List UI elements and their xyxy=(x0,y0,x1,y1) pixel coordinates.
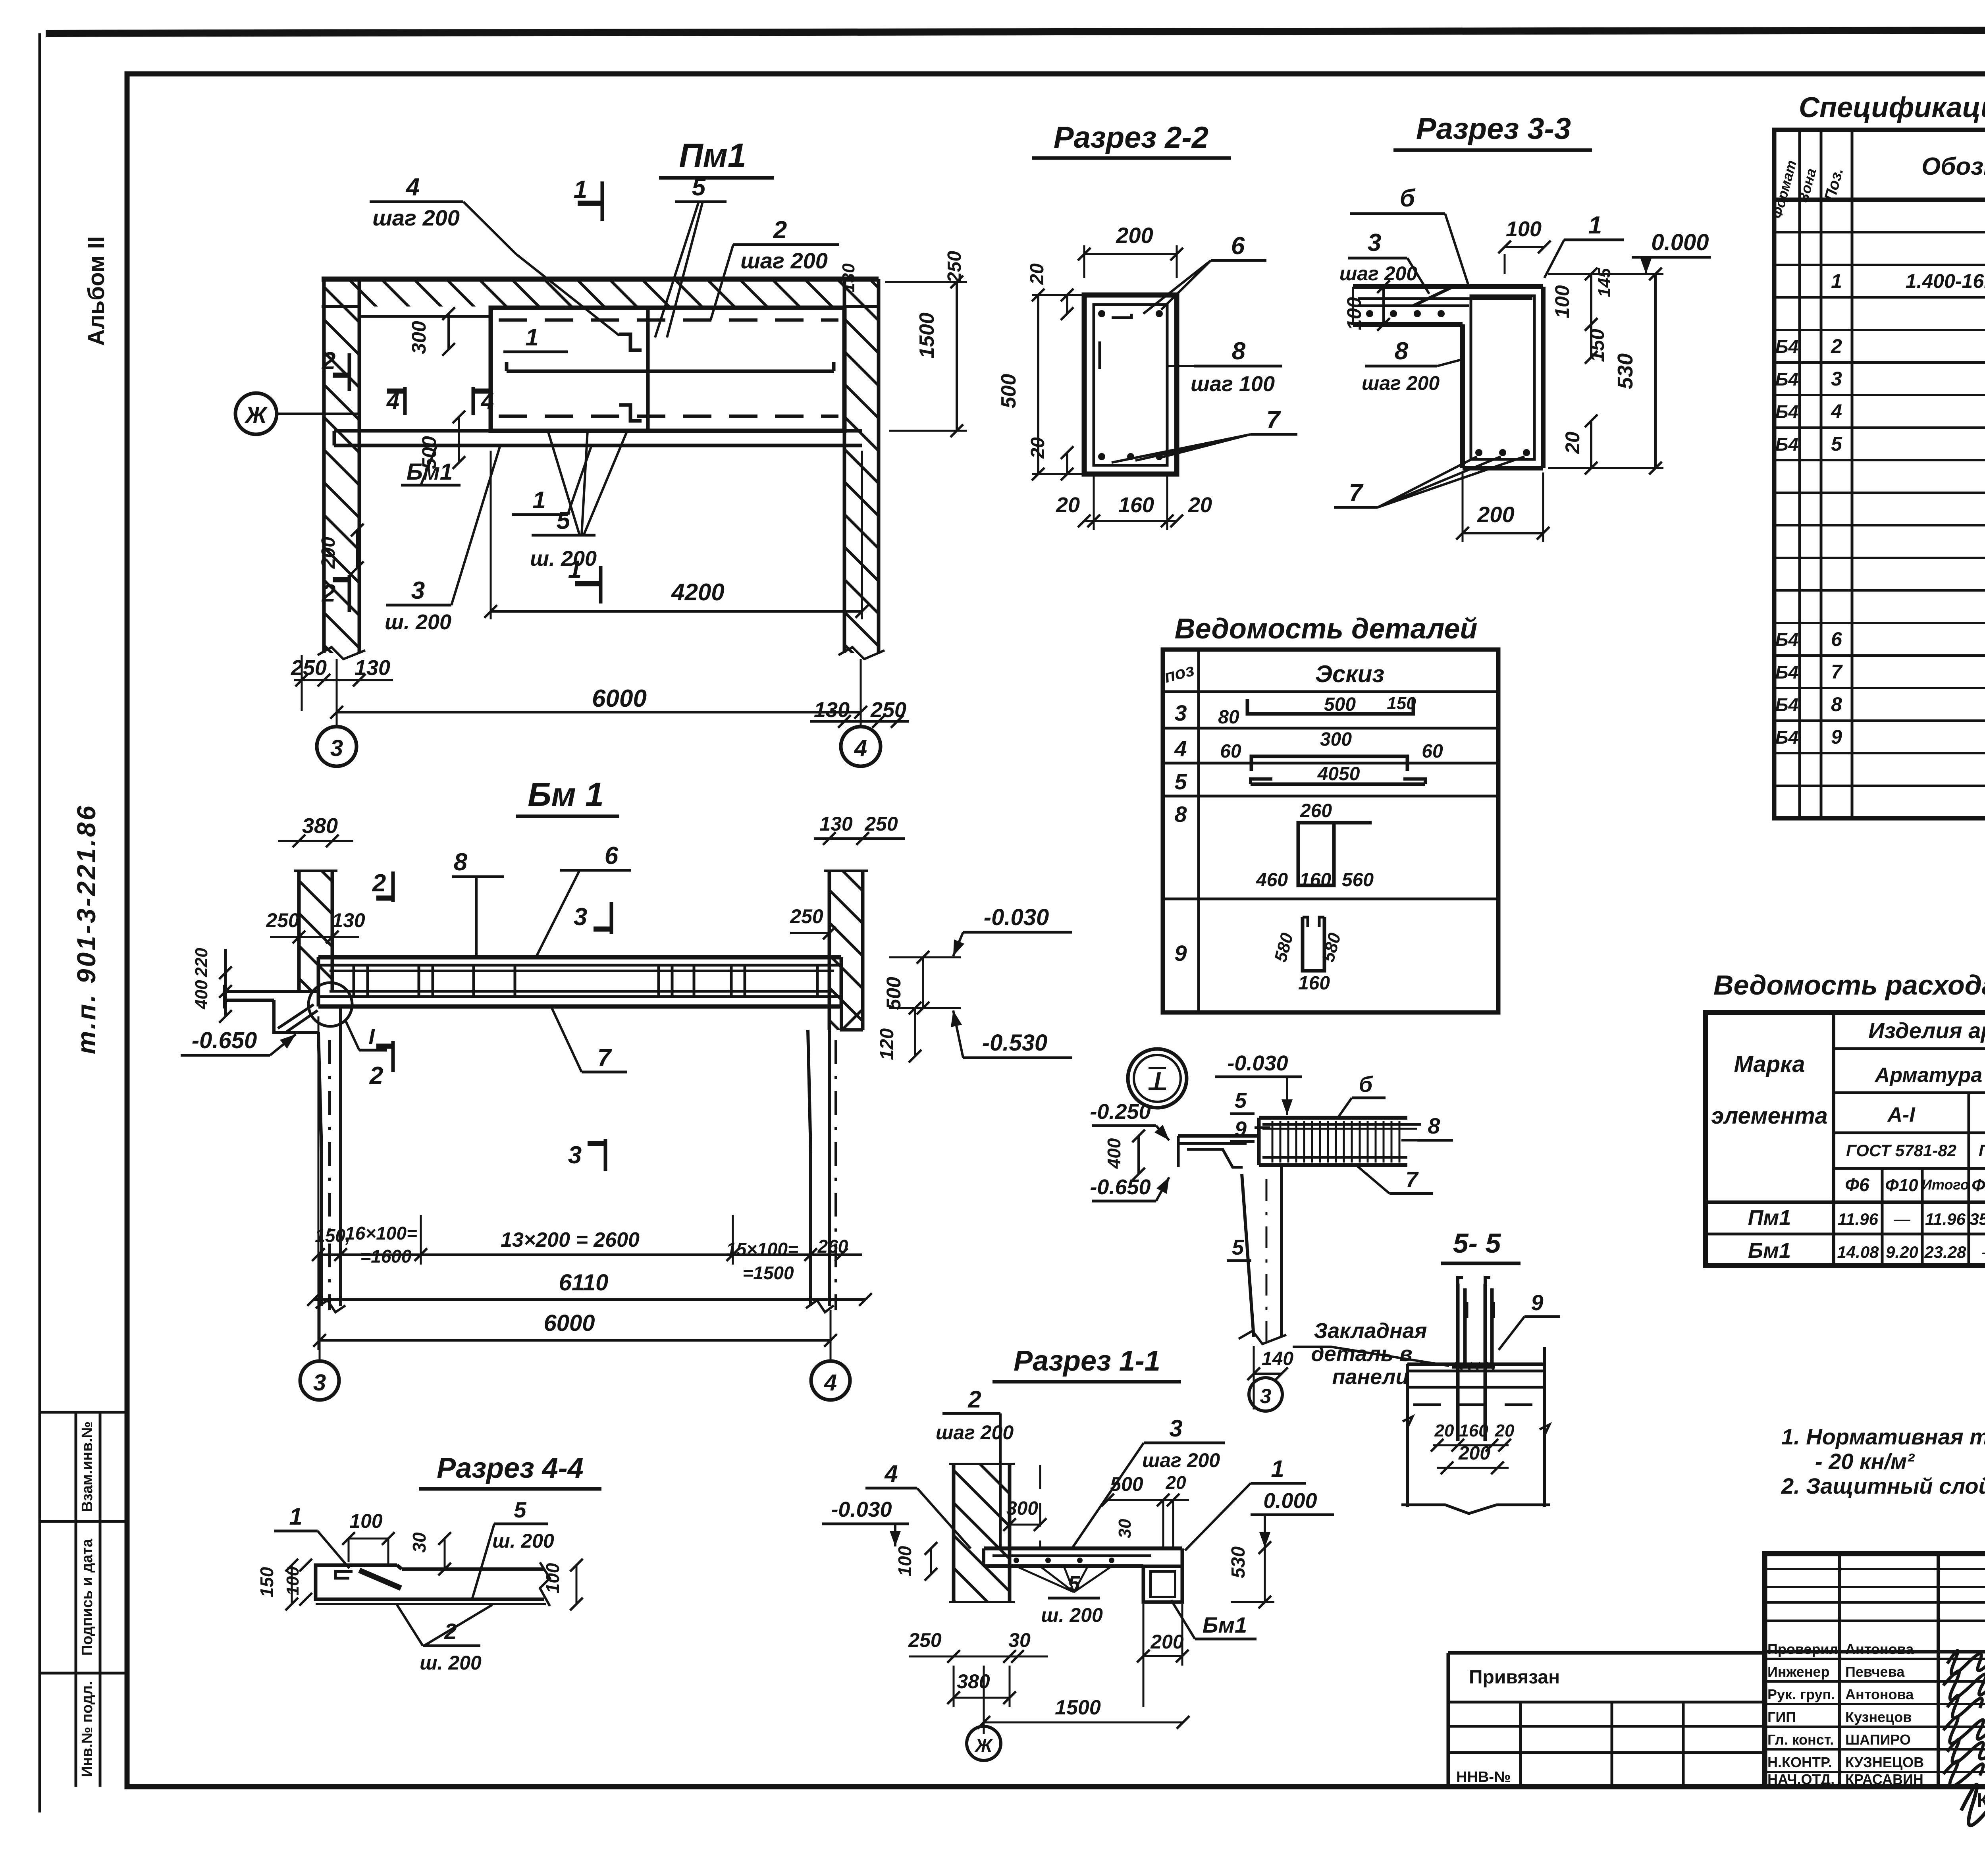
svg-text:4: 4 xyxy=(854,735,867,761)
detail 5-5 embedded plate xyxy=(1452,1363,1495,1369)
svg-text:250: 250 xyxy=(291,656,327,680)
title block small rows xyxy=(1765,1568,1985,1570)
detail I column xyxy=(1242,1174,1254,1337)
Pm1 right pier hatch xyxy=(845,307,878,653)
svg-text:6: 6 xyxy=(1231,232,1245,260)
detail I axis circle 3 xyxy=(1249,1378,1282,1411)
svg-text:9.20: 9.20 xyxy=(1886,1243,1918,1261)
Razrez 1-1 beam block xyxy=(1143,1566,1182,1602)
svg-text:ГИП: ГИП xyxy=(1767,1709,1796,1725)
svg-text:250: 250 xyxy=(908,1629,942,1651)
svg-text:35.20: 35.20 xyxy=(1970,1210,1985,1228)
svg-text:Копировал:: Копировал: xyxy=(1977,1789,1985,1812)
svg-text:шаг 200: шаг 200 xyxy=(936,1421,1014,1444)
Bm1 stirrups xyxy=(353,965,355,997)
svg-text:3: 3 xyxy=(1169,1415,1182,1442)
svg-text:шаг 200: шаг 200 xyxy=(1362,372,1440,394)
svg-text:100: 100 xyxy=(894,1546,915,1576)
svg-text:5: 5 xyxy=(1174,769,1187,794)
svg-text:Певчева: Певчева xyxy=(1845,1664,1905,1680)
svg-text:Разрез 1-1: Разрез 1-1 xyxy=(1014,1345,1160,1377)
Razrez 1-1 axis circle Ж xyxy=(967,1726,1001,1760)
svg-text:=1500: =1500 xyxy=(742,1263,794,1283)
svg-text:1: 1 xyxy=(532,487,545,513)
svg-text:5: 5 xyxy=(557,507,571,534)
svg-text:ННВ-№: ННВ-№ xyxy=(1456,1769,1511,1785)
svg-text:1: 1 xyxy=(1271,1456,1284,1482)
svg-text:КРАСАВИН: КРАСАВИН xyxy=(1845,1771,1923,1787)
svg-text:4: 4 xyxy=(1831,400,1842,422)
svg-text:2: 2 xyxy=(1831,335,1842,357)
Bm1 right pier hatch xyxy=(830,871,862,1030)
Pm1 slab transverse bar xyxy=(646,309,650,430)
svg-text:530: 530 xyxy=(1228,1546,1249,1578)
svg-text:380: 380 xyxy=(302,814,338,838)
Razrez 2-2 stirrup xyxy=(1094,305,1167,465)
svg-text:250: 250 xyxy=(266,909,299,931)
svg-text:Кузнецов: Кузнецов xyxy=(1845,1709,1912,1725)
svg-text:ШАПИРО: ШАПИРО xyxy=(1845,1731,1911,1748)
svg-text:Б4: Б4 xyxy=(1775,401,1798,422)
svg-text:=1600: =1600 xyxy=(360,1246,412,1267)
Razrez 3-3 beam dots xyxy=(1475,449,1482,456)
svg-text:200: 200 xyxy=(1116,223,1153,248)
svg-text:140: 140 xyxy=(1262,1348,1293,1369)
svg-text:8: 8 xyxy=(1395,337,1409,365)
Razrez 2-2 left hook xyxy=(1098,341,1101,369)
svg-text:Пм1: Пм1 xyxy=(1748,1206,1791,1230)
svg-text:5: 5 xyxy=(514,1497,526,1522)
svg-text:130: 130 xyxy=(814,698,850,722)
svg-text:6: 6 xyxy=(1831,628,1842,650)
Pm1 left pier hatch xyxy=(325,307,358,653)
svg-text:6000: 6000 xyxy=(592,685,647,712)
detail 5-5 break marks xyxy=(1403,1417,1413,1428)
svg-text:7: 7 xyxy=(1349,479,1364,507)
svg-text:1: 1 xyxy=(1588,212,1602,239)
svg-text:Инженер: Инженер xyxy=(1767,1664,1829,1680)
svg-text:460: 460 xyxy=(1256,870,1288,891)
Pm1 bent bar mark bottom xyxy=(619,405,642,421)
svg-text:100: 100 xyxy=(542,1563,563,1593)
svg-text:9: 9 xyxy=(1531,1290,1543,1315)
svg-text:200: 200 xyxy=(1477,502,1514,527)
svg-text:КУЗНЕЦОВ: КУЗНЕЦОВ xyxy=(1845,1754,1924,1770)
svg-text:1: 1 xyxy=(289,1503,302,1530)
svg-text:Бм 1: Бм 1 xyxy=(528,776,604,813)
svg-text:250: 250 xyxy=(864,813,898,835)
svg-text:20: 20 xyxy=(1027,263,1048,285)
svg-text:Ф 10: Ф 10 xyxy=(1972,1176,1985,1195)
Pm1 axis circle 4 xyxy=(841,727,881,766)
svg-text:Обозначение: Обозначение xyxy=(1921,153,1985,180)
svg-text:Б4: Б4 xyxy=(1775,369,1798,389)
svg-text:11.96: 11.96 xyxy=(1838,1210,1879,1228)
svg-text:160: 160 xyxy=(1118,493,1154,517)
svg-text:30: 30 xyxy=(409,1532,430,1553)
svg-text:300: 300 xyxy=(1320,729,1352,750)
svg-text:0.000: 0.000 xyxy=(1263,1489,1317,1513)
svg-text:8: 8 xyxy=(454,848,468,876)
Bm1 right console xyxy=(841,1006,863,1030)
title block stamp rows xyxy=(1765,1658,1985,1660)
svg-text:б: б xyxy=(1400,185,1416,212)
Razrez 3-3 beam outline xyxy=(1460,324,1465,468)
Pm1 slab outline xyxy=(491,308,844,431)
Pm1 opening outline xyxy=(359,316,490,431)
svg-text:160: 160 xyxy=(1298,973,1330,994)
Pm1 wall band hatch xyxy=(322,280,878,307)
Bm1 left console xyxy=(274,1000,318,1032)
svg-text:-0.650: -0.650 xyxy=(1090,1175,1151,1199)
svg-text:Подпись и дата: Подпись и дата xyxy=(79,1539,96,1656)
Bm1 top chord bars xyxy=(330,970,834,972)
svg-text:250: 250 xyxy=(790,905,823,927)
svg-text:Взам.инв.№: Взам.инв.№ xyxy=(79,1421,96,1512)
svg-text:16×100=: 16×100= xyxy=(345,1223,417,1244)
svg-text:300: 300 xyxy=(1006,1498,1038,1519)
svg-text:ш. 200: ш. 200 xyxy=(530,547,597,571)
detail I panel seat xyxy=(1178,1134,1259,1138)
svg-text:шаг 200: шаг 200 xyxy=(372,205,460,230)
svg-text:элемента: элемента xyxy=(1711,1103,1828,1129)
spec table grid xyxy=(1774,130,1985,818)
Razrez 3-3 slab rebar dots xyxy=(1366,310,1373,317)
svg-text:9: 9 xyxy=(1174,941,1187,966)
Razrez 3-3 bent bar xyxy=(1413,287,1469,306)
Razrez 3-3 stirrup xyxy=(1471,296,1534,459)
Razrez 4-4 bar top xyxy=(349,1564,397,1567)
Razrez 1-1 wall hatch xyxy=(954,1465,1009,1602)
svg-text:2: 2 xyxy=(322,347,335,375)
Pm1 left pier outline xyxy=(322,279,326,653)
svg-text:панели: панели xyxy=(1332,1365,1409,1389)
svg-text:20: 20 xyxy=(1188,493,1212,517)
detail I beam xyxy=(1259,1116,1407,1120)
svg-text:Антонова: Антонова xyxy=(1845,1686,1914,1702)
svg-text:1: 1 xyxy=(525,324,538,351)
Bm1 right column xyxy=(808,1030,811,1151)
Pm1 right pier outline xyxy=(843,279,846,653)
svg-text:Б4: Б4 xyxy=(1775,629,1798,650)
Bm1 right pier outline xyxy=(828,871,831,1030)
svg-text:Б4: Б4 xyxy=(1775,662,1798,683)
svg-text:60: 60 xyxy=(1220,741,1241,762)
svg-text:1. Нормативная технологическ: 1. Нормативная технологическая нагрузка … xyxy=(1781,1424,1985,1449)
svg-text:14.08: 14.08 xyxy=(1837,1243,1879,1261)
svg-text:8: 8 xyxy=(1831,693,1842,715)
svg-text:20: 20 xyxy=(1434,1421,1454,1440)
svg-text:А-I: А-I xyxy=(1887,1103,1916,1126)
svg-text:8: 8 xyxy=(1428,1113,1440,1138)
svg-text:145: 145 xyxy=(1595,268,1614,297)
Razrez 1-1 slab xyxy=(984,1546,1163,1550)
Razrez 4-4 bar bottom xyxy=(349,1598,544,1601)
svg-text:2: 2 xyxy=(773,216,787,244)
Pm1 wall band outline xyxy=(322,277,879,282)
svg-text:130: 130 xyxy=(355,656,390,680)
Bm1 axis circle 3 xyxy=(300,1361,339,1400)
svg-text:500: 500 xyxy=(883,977,905,1010)
svg-text:2. Защитный слой бетона в: 2. Защитный слой бетона в пм1-15мм. xyxy=(1781,1473,1985,1498)
svg-text:20: 20 xyxy=(1165,1472,1186,1493)
Razrez 3-3 slab rebar xyxy=(1358,297,1532,300)
svg-text:Б4: Б4 xyxy=(1775,336,1798,357)
svg-text:5: 5 xyxy=(1831,433,1842,455)
svg-text:150: 150 xyxy=(1387,694,1416,713)
svg-text:200: 200 xyxy=(1458,1443,1490,1464)
svg-text:2: 2 xyxy=(967,1386,981,1413)
svg-text:20: 20 xyxy=(1495,1421,1515,1440)
svg-text:30: 30 xyxy=(1115,1519,1135,1538)
title block outer xyxy=(1765,1554,1985,1787)
svg-text:—: — xyxy=(1893,1210,1911,1228)
svg-text:3: 3 xyxy=(574,903,587,931)
steel table outer xyxy=(1706,1012,1985,1265)
svg-text:-0.030: -0.030 xyxy=(831,1498,892,1521)
svg-text:3: 3 xyxy=(568,1141,582,1169)
svg-text:9: 9 xyxy=(1831,726,1842,748)
steel table verticals xyxy=(1832,1012,1835,1265)
svg-text:1: 1 xyxy=(1831,270,1842,292)
svg-text:3: 3 xyxy=(330,735,343,761)
svg-text:I: I xyxy=(368,1024,375,1049)
svg-text:Марка: Марка xyxy=(1734,1051,1805,1077)
svg-text:3: 3 xyxy=(1260,1385,1272,1408)
svg-text:3: 3 xyxy=(313,1370,326,1396)
svg-text:200: 200 xyxy=(1150,1631,1184,1653)
svg-text:Проверил: Проверил xyxy=(1767,1641,1839,1657)
Pm1 pier break marks xyxy=(318,647,365,659)
svg-text:1.400-16. В.1. 640-01: 1.400-16. В.1. 640-01 xyxy=(1906,270,1985,292)
svg-text:220: 220 xyxy=(192,948,211,978)
Bm1 left slab stub xyxy=(224,990,318,993)
svg-text:500: 500 xyxy=(997,374,1020,409)
svg-text:500: 500 xyxy=(1110,1473,1143,1495)
svg-text:-0.030: -0.030 xyxy=(984,904,1049,930)
svg-text:560: 560 xyxy=(1342,870,1374,891)
svg-text:130: 130 xyxy=(839,263,858,293)
svg-text:шаг 200: шаг 200 xyxy=(1339,262,1417,285)
svg-text:Ведомость деталей: Ведомость деталей xyxy=(1175,613,1478,645)
svg-text:Изделия арматурные: Изделия арматурные xyxy=(1868,1018,1985,1043)
svg-text:20: 20 xyxy=(1027,437,1048,459)
Razrez 2-2 rebar dots xyxy=(1098,310,1105,317)
svg-text:1500: 1500 xyxy=(915,312,939,359)
svg-text:Альбом II: Альбом II xyxy=(83,236,109,346)
Pm1 axis lines to circles xyxy=(336,659,338,725)
svg-text:Н.КОНТР.: Н.КОНТР. xyxy=(1767,1754,1832,1770)
svg-text:100: 100 xyxy=(1551,285,1573,318)
svg-text:150: 150 xyxy=(1586,329,1608,362)
sheet outer border left xyxy=(39,33,41,1812)
left margin stamp table xyxy=(40,1411,127,1414)
svg-text:30: 30 xyxy=(1008,1629,1031,1651)
svg-text:Ведомость расхода стали на: Ведомость расхода стали на элемент, кг xyxy=(1713,970,1985,1001)
detail 5-5 rebar legs xyxy=(1456,1284,1460,1441)
Razrez 4-4 break right xyxy=(540,1562,550,1606)
svg-text:120: 120 xyxy=(877,1028,898,1060)
Bm1 bottom chord bars xyxy=(330,990,834,993)
svg-text:0.000: 0.000 xyxy=(1651,229,1709,255)
title block row line 4160 xyxy=(1765,1650,1985,1654)
svg-text:20: 20 xyxy=(1561,432,1584,454)
svg-text:1500: 1500 xyxy=(1055,1696,1101,1719)
svg-text:ГОСТ 5781-82: ГОСТ 5781-82 xyxy=(1979,1141,1985,1160)
svg-text:4: 4 xyxy=(884,1460,898,1487)
svg-text:-0.250: -0.250 xyxy=(1090,1100,1151,1124)
svg-text:100: 100 xyxy=(1343,297,1365,330)
svg-text:шаг 200: шаг 200 xyxy=(1142,1449,1220,1471)
svg-text:Бм1: Бм1 xyxy=(1748,1239,1791,1263)
vedomost row 5 sketch xyxy=(1251,783,1425,786)
Pm1 slab bottom rebar dashed xyxy=(499,415,838,418)
Bm1 left column break xyxy=(316,1300,345,1312)
svg-text:400: 400 xyxy=(1104,1138,1124,1169)
svg-text:4200: 4200 xyxy=(671,579,724,605)
svg-text:Ж: Ж xyxy=(244,402,268,428)
svg-text:130: 130 xyxy=(819,813,853,835)
Bm1 left column xyxy=(318,1032,322,1151)
svg-text:шаг 100: шаг 100 xyxy=(1191,372,1275,396)
svg-text:Разрез 4-4: Разрез 4-4 xyxy=(437,1452,584,1484)
svg-text:500: 500 xyxy=(1324,694,1356,715)
Razrez 1-1 wall outline xyxy=(952,1464,956,1602)
svg-text:Арматура класса: Арматура класса xyxy=(1874,1064,1985,1087)
privyazan table xyxy=(1447,1653,1450,1787)
svg-text:Рук. груп.: Рук. груп. xyxy=(1767,1686,1835,1702)
svg-text:160: 160 xyxy=(1459,1421,1488,1440)
svg-text:Закладная: Закладная xyxy=(1314,1319,1427,1343)
svg-text:11.96: 11.96 xyxy=(1925,1210,1966,1228)
Pm1 axis zh line xyxy=(277,413,359,415)
Bm1 beam outline xyxy=(318,955,841,960)
svg-text:Разрез 2-2: Разрез 2-2 xyxy=(1054,121,1208,154)
svg-text:400: 400 xyxy=(192,980,211,1010)
svg-text:200: 200 xyxy=(318,537,339,569)
svg-text:б: б xyxy=(1359,1072,1373,1097)
svg-text:3: 3 xyxy=(1831,368,1842,390)
steel table horizontals xyxy=(1834,1047,1985,1050)
svg-text:2: 2 xyxy=(369,1062,383,1089)
Razrez 3-3 slab outline xyxy=(1353,284,1543,289)
svg-text:80: 80 xyxy=(1218,707,1239,728)
svg-text:Ж: Ж xyxy=(975,1735,993,1756)
svg-text:ш. 200: ш. 200 xyxy=(385,610,451,634)
svg-text:Б4: Б4 xyxy=(1775,727,1798,748)
Pm1 axis zh circle xyxy=(235,393,277,434)
Razrez 2-2 section outline xyxy=(1084,295,1177,474)
sheet outer border top xyxy=(46,29,1985,33)
Razrez 1-1 slab bars xyxy=(992,1554,1151,1557)
svg-text:160: 160 xyxy=(1299,870,1331,891)
svg-text:- 20 кн/м²: - 20 кн/м² xyxy=(1815,1449,1915,1474)
svg-text:3: 3 xyxy=(411,577,425,604)
svg-text:Эскиз: Эскиз xyxy=(1315,661,1384,687)
svg-text:Бм1: Бм1 xyxy=(1203,1612,1247,1637)
detail I circle xyxy=(1128,1049,1187,1108)
svg-text:5: 5 xyxy=(1235,1089,1247,1112)
Bm1 detail I circle xyxy=(308,983,352,1026)
detail I beam bottom bars xyxy=(1262,1156,1407,1159)
svg-text:2: 2 xyxy=(372,870,386,897)
svg-text:4: 4 xyxy=(824,1370,837,1396)
svg-text:20: 20 xyxy=(1056,493,1080,517)
svg-text:7: 7 xyxy=(1266,406,1281,434)
svg-text:т.п. 901-3-221.86: т.п. 901-3-221.86 xyxy=(71,804,101,1055)
svg-text:Итого: Итого xyxy=(1921,1176,1969,1193)
svg-text:6110: 6110 xyxy=(559,1270,609,1296)
vedomost row 9 sketch xyxy=(1303,917,1324,971)
svg-text:5: 5 xyxy=(1232,1236,1244,1259)
svg-text:100: 100 xyxy=(349,1510,383,1532)
svg-text:ш. 200: ш. 200 xyxy=(420,1652,482,1674)
svg-text:-0.030: -0.030 xyxy=(1227,1051,1288,1075)
svg-text:6: 6 xyxy=(605,842,619,870)
svg-text:Антонова: Антонова xyxy=(1845,1641,1914,1657)
svg-text:Б4: Б4 xyxy=(1775,434,1798,455)
Pm1 beam Bm1 strip xyxy=(334,429,862,433)
svg-text:300: 300 xyxy=(408,321,430,354)
svg-text:НАЧ.ОТД.: НАЧ.ОТД. xyxy=(1767,1771,1835,1787)
svg-text:5: 5 xyxy=(692,174,706,201)
svg-text:5- 5: 5- 5 xyxy=(1453,1228,1501,1259)
detail I beam top bars xyxy=(1262,1123,1421,1126)
svg-text:530: 530 xyxy=(1613,353,1637,389)
svg-text:4: 4 xyxy=(1174,736,1187,761)
svg-text:шаг 200: шаг 200 xyxy=(740,248,828,273)
svg-text:150: 150 xyxy=(256,1567,277,1597)
svg-text:Разрез 3-3: Разрез 3-3 xyxy=(1416,112,1571,146)
svg-text:ш. 200: ш. 200 xyxy=(1041,1604,1103,1626)
svg-text:4: 4 xyxy=(405,174,420,201)
svg-text:Пм1: Пм1 xyxy=(679,137,746,174)
detail 5-5 panel xyxy=(1407,1363,1544,1366)
Bm1 left pier hatch xyxy=(300,871,332,993)
svg-text:Ф6: Ф6 xyxy=(1845,1174,1869,1195)
svg-text:-0.530: -0.530 xyxy=(982,1030,1047,1056)
svg-text:6000: 6000 xyxy=(543,1310,595,1336)
Razrez 4-4 channel xyxy=(316,1565,349,1599)
Pm1 bent bar mark top xyxy=(619,334,642,350)
svg-text:3: 3 xyxy=(1174,700,1187,725)
svg-text:13×200 = 2600: 13×200 = 2600 xyxy=(501,1228,640,1251)
Bm1 axis circle 4 xyxy=(811,1361,850,1400)
svg-text:1: 1 xyxy=(568,556,582,583)
svg-text:Спецификация монолитных элем: Спецификация монолитных элементов xyxy=(1799,92,1985,123)
svg-text:4050: 4050 xyxy=(1317,764,1360,785)
svg-text:ГОСТ 5781-82: ГОСТ 5781-82 xyxy=(1846,1141,1956,1160)
svg-text:260: 260 xyxy=(1300,800,1332,821)
svg-text:23.28: 23.28 xyxy=(1924,1243,1966,1261)
svg-text:3: 3 xyxy=(1368,229,1381,256)
svg-text:Ф10: Ф10 xyxy=(1885,1176,1918,1195)
svg-text:8: 8 xyxy=(1174,802,1187,827)
Razrez 2-2 top hook xyxy=(1112,314,1131,318)
Pm1 axis circle 3 xyxy=(317,727,357,766)
svg-text:-0.650: -0.650 xyxy=(192,1028,257,1053)
Bm1 left pier outline xyxy=(297,871,301,993)
svg-text:Инв.№ подл.: Инв.№ подл. xyxy=(79,1681,96,1777)
title block left columns verticals xyxy=(1838,1554,1841,1787)
svg-text:Гл. конст.: Гл. конст. xyxy=(1767,1731,1834,1748)
svg-text:7: 7 xyxy=(1405,1167,1419,1192)
svg-text:7: 7 xyxy=(597,1044,612,1072)
svg-text:Б4: Б4 xyxy=(1775,694,1798,715)
Pm1 slab main bar xyxy=(507,370,834,373)
svg-text:130: 130 xyxy=(332,909,365,931)
Bm1 right column break xyxy=(806,1300,834,1312)
